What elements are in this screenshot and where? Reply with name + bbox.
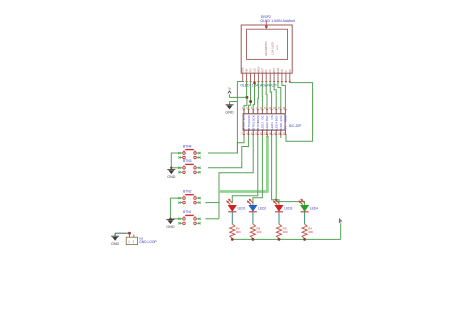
svg-text:SI: SI xyxy=(286,70,288,73)
svg-text:VIN: VIN xyxy=(247,68,249,72)
svg-text:OLED 1.54IN Adafruit: OLED 1.54IN Adafruit xyxy=(260,19,295,23)
svg-text:SO: SO xyxy=(290,69,292,73)
svg-text:GND: GND xyxy=(284,114,288,122)
svg-text:GND: GND xyxy=(243,67,245,72)
svg-text:RST: RST xyxy=(265,115,269,121)
svg-text:GND: GND xyxy=(167,175,176,179)
svg-text:GND: GND xyxy=(225,110,234,114)
svg-text:BTN4: BTN4 xyxy=(183,144,192,148)
svg-text:MOSI: MOSI xyxy=(256,115,260,123)
svg-text:300: 300 xyxy=(257,230,262,234)
svg-text:MOSI: MOSI xyxy=(258,66,260,72)
svg-text:RST: RST xyxy=(262,67,264,72)
svg-text:ENA: ENA xyxy=(279,115,283,121)
svg-text:300: 300 xyxy=(308,230,313,234)
svg-text:CD: CD xyxy=(282,69,284,73)
svg-text:CS: CS xyxy=(270,69,272,73)
svg-text:DC: DC xyxy=(266,69,268,73)
svg-text:BSY: BSY xyxy=(274,68,276,73)
svg-text:BTN1: BTN1 xyxy=(242,122,246,130)
svg-text:DISP2: DISP2 xyxy=(261,15,271,19)
svg-text:IDC-20P: IDC-20P xyxy=(289,124,302,128)
svg-text:LED3: LED3 xyxy=(270,122,274,130)
svg-text:3V3: 3V3 xyxy=(242,115,246,121)
svg-text:SCK: SCK xyxy=(251,115,255,121)
svg-text:300: 300 xyxy=(283,230,288,234)
svg-text:BTN2: BTN2 xyxy=(183,190,192,194)
svg-text:GND: GND xyxy=(166,225,175,229)
svg-text:CS: CS xyxy=(270,115,274,119)
svg-text:300: 300 xyxy=(236,230,241,234)
svg-text:BSY: BSY xyxy=(274,115,278,121)
svg-text:GND: GND xyxy=(247,114,251,122)
svg-text:LED4: LED4 xyxy=(274,122,278,130)
svg-text:LED1: LED1 xyxy=(261,122,265,130)
svg-text:BTN3: BTN3 xyxy=(183,159,192,163)
svg-text:GND: GND xyxy=(279,122,283,130)
svg-text:BTN3: BTN3 xyxy=(251,122,255,130)
svg-text:BTN2: BTN2 xyxy=(247,122,251,130)
svg-text:LED2: LED2 xyxy=(258,206,266,210)
svg-text:3V3: 3V3 xyxy=(251,68,253,73)
svg-text:BTN1: BTN1 xyxy=(183,210,192,214)
svg-text:GND LOOP: GND LOOP xyxy=(139,240,157,244)
svg-text:5V: 5V xyxy=(284,126,288,130)
svg-text:BTN4: BTN4 xyxy=(256,122,260,130)
svg-text:CLK: CLK xyxy=(255,68,257,73)
svg-text:LED2: LED2 xyxy=(265,122,269,130)
svg-text:LED3: LED3 xyxy=(284,206,292,210)
svg-text:LED1: LED1 xyxy=(238,206,246,210)
svg-text:LED4: LED4 xyxy=(310,206,318,210)
svg-text:GND: GND xyxy=(111,242,120,246)
